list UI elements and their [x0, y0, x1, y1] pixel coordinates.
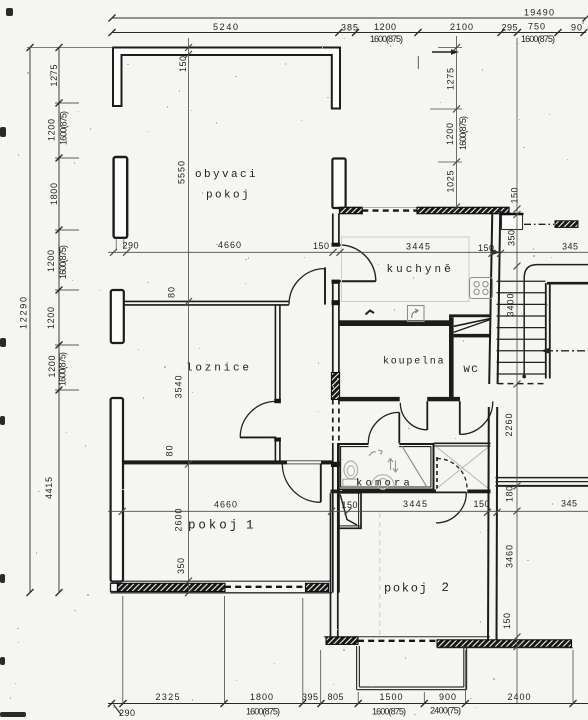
wall: pokoj 1 south wall hatched segment — [118, 583, 226, 591]
wall: divider stub at pokoj 1 door east side (dark) — [321, 460, 332, 464]
staircase treads — [497, 281, 546, 374]
window: dashed opening in kuchyne north wall — [362, 209, 417, 211]
svg-text:4660: 4660 — [214, 500, 237, 510]
svg-text:4660: 4660 — [218, 240, 241, 250]
svg-text:1200: 1200 — [445, 123, 455, 145]
faint fold line in pokoj 2 — [379, 513, 381, 636]
door swing arc: pokoj 2 entry door — [436, 493, 466, 523]
dimension chain line: top row — [109, 29, 588, 36]
door swing arc: pokoj 1 door — [282, 464, 321, 503]
door: shaft diagonal door leaf lines — [454, 319, 490, 327]
vertical dimension line x=456.5 (kitchen column) — [430, 36, 462, 211]
svg-text:150: 150 — [474, 499, 490, 509]
dimension line: overall 19490 top — [109, 15, 588, 22]
svg-text:1200: 1200 — [47, 356, 57, 378]
balcony: railing outline below pokoj 2 — [357, 646, 467, 690]
double arrow symbol in komora — [388, 459, 398, 473]
svg-text:290: 290 — [119, 708, 135, 718]
svg-text:4415: 4415 — [44, 477, 54, 499]
bottom dimension chain line — [108, 700, 588, 707]
scan artifacts: dark blobs at page edges — [0, 8, 26, 717]
svg-text:3445: 3445 — [406, 242, 430, 252]
svg-text:150: 150 — [178, 56, 188, 72]
wall: central wall dashed opening segment — [332, 400, 334, 444]
wall: shaft / WC divider bar — [454, 334, 491, 338]
door swing arc: hall/komora door — [368, 412, 399, 443]
svg-text:3460: 3460 — [505, 545, 515, 568]
svg-text:2400(75): 2400(75) — [430, 706, 461, 716]
wall: koupelna south wall east part / WC south-west (dark) — [427, 397, 460, 401]
door leaf: hall/komora door — [398, 412, 400, 443]
wall: pokoj 1 south wall east hatched segment — [306, 583, 329, 591]
stair walking line with arrow — [545, 350, 588, 352]
svg-text:295: 295 — [502, 23, 518, 33]
wall: loznice east wall upper part — [274, 305, 276, 400]
svg-text:150: 150 — [342, 500, 358, 510]
svg-text:1200: 1200 — [374, 22, 396, 32]
svg-text:WC: WC — [464, 364, 480, 376]
svg-text:1600(875): 1600(875) — [372, 707, 406, 717]
wall: koupelna north wall (dark) — [340, 320, 452, 326]
svg-text:150: 150 — [502, 613, 512, 629]
neighbour balcony: triple horizontal lines right side — [496, 477, 588, 479]
kitchen counter: faint outline — [342, 237, 470, 302]
door swing arc: kuchyne west door — [339, 245, 376, 281]
cabinet cross: faint X in nook east of komora — [436, 447, 489, 490]
short tick extension under 1200 top chain — [417, 56, 419, 69]
svg-text:1600(875): 1600(875) — [59, 111, 69, 145]
svg-text:2: 2 — [442, 581, 450, 595]
svg-text:345: 345 — [561, 499, 577, 509]
svg-text:pokoj: pokoj — [206, 190, 251, 202]
svg-text:komora: komora — [356, 478, 413, 490]
svg-text:150: 150 — [313, 241, 329, 251]
door swing arc: WC door — [460, 401, 493, 434]
svg-text:obyvaci: obyvaci — [195, 169, 258, 181]
staircase bottom dashed landing edge — [498, 383, 547, 385]
wall: left facade pier C (pokoj 1 west wall) — [111, 398, 123, 582]
dimension row inside plan at y=511 — [108, 508, 588, 516]
door jamb: pokoj 1 door at central wall — [331, 462, 340, 467]
wall: pokoj 1 south exterior wall outline — [111, 580, 332, 582]
svg-text:1025: 1025 — [446, 171, 456, 193]
door swing arc: obyvaci/loznice door — [289, 269, 325, 305]
wall junction block on central wall at obyvaci/loznice divider — [332, 300, 340, 305]
squiggle arrow in komora — [369, 450, 382, 456]
window: dashed opening in pokoj 2 south wall — [358, 640, 437, 642]
wall: kuchyne north exterior wall, hatched segment right — [417, 207, 509, 213]
wall: kuchyne north exterior wall, hatched segment left — [340, 207, 363, 213]
neighbour wall: dash-dot line at top right — [524, 223, 554, 225]
wall: pokoj 2 west wall — [330, 493, 332, 637]
svg-text:750: 750 — [528, 21, 545, 31]
rotated labels on x=517 line — [502, 188, 520, 630]
wall: pokoj 2 north wall west part (dark) — [331, 490, 437, 494]
wall: pokoj 2 south wall east hatched segment continuing under east wall — [437, 640, 572, 647]
threshold: pokoj 1 door opening — [287, 460, 321, 462]
svg-text:1200: 1200 — [46, 307, 56, 329]
svg-text:350: 350 — [176, 558, 186, 574]
door leaf: loznice door — [240, 436, 276, 438]
window: dashed opening in pokoj 1 south wall — [225, 586, 306, 588]
door swing arc dashed: nook folding door — [437, 459, 467, 489]
wall: top exterior U-wall of obyvaci pokoj — [113, 48, 340, 109]
washer: faint icon in komora — [372, 475, 395, 486]
landing: entrance landing outside kitchen — [502, 215, 523, 230]
mark: small dark check in koupelna top left — [366, 311, 375, 315]
door leaf dashed: nook folding door — [436, 457, 438, 489]
svg-text:1600(875): 1600(875) — [246, 707, 280, 717]
svg-text:loznice: loznice — [186, 363, 252, 375]
svg-text:1600(875): 1600(875) — [58, 245, 68, 279]
svg-text:395: 395 — [302, 692, 318, 702]
wall: koupelna south wall west part (dark) — [340, 397, 400, 401]
wall: pokoj 2 north wall east part (dark) — [467, 490, 490, 494]
svg-text:350: 350 — [507, 230, 517, 246]
dimension line: overall 12290 left — [29, 48, 31, 593]
wall: komora box outer border — [338, 444, 434, 490]
svg-text:pokoj: pokoj — [188, 519, 240, 533]
wall: koupelna / WC divider — [449, 317, 454, 401]
handrail: curved line at stair head with railing down the flight — [524, 265, 588, 377]
wall: central wall lower solid segment (pokoj 1 east wall) — [332, 443, 334, 593]
svg-text:1200: 1200 — [46, 250, 56, 272]
svg-text:2600: 2600 — [174, 509, 184, 532]
staircase east wall — [545, 283, 547, 379]
door jamb: kuchyne west door top — [332, 243, 340, 247]
svg-text:koupelna: koupelna — [383, 356, 445, 368]
entrance arrow under top chain — [432, 51, 453, 53]
wall: pier between obyvaci pokoj and kuchyne block (east facade) — [332, 159, 345, 209]
door leaf: pokoj 1 door — [320, 464, 322, 503]
svg-text:5240: 5240 — [213, 22, 238, 32]
svg-text:2325: 2325 — [156, 692, 180, 702]
dimension labels left column (rotated) — [44, 65, 69, 500]
svg-text:1800: 1800 — [250, 692, 273, 702]
svg-text:1600(875): 1600(875) — [458, 116, 468, 150]
cabinet diagonal: faint diagonal in komora right part — [402, 446, 428, 488]
svg-text:12290: 12290 — [19, 297, 29, 329]
svg-text:2100: 2100 — [450, 22, 473, 32]
svg-text:90: 90 — [571, 23, 582, 33]
svg-text:pokoj: pokoj — [384, 582, 429, 596]
wall: divider obyvaci pokoj / loznice — [124, 300, 289, 302]
rotated labels on x=456.5 line — [445, 68, 468, 193]
svg-text:1275: 1275 — [446, 68, 456, 90]
svg-text:385: 385 — [341, 22, 358, 32]
dimension chain line: left column — [55, 44, 79, 596]
interior vertical dimension line x=188.5 — [185, 38, 192, 596]
wall: left facade pier B — [111, 290, 124, 343]
wall: central wall solid segment below kuchyne door — [332, 284, 334, 373]
door leaf: pokoj 2 entry door — [436, 491, 467, 493]
svg-text:1600(875): 1600(875) — [58, 352, 68, 386]
svg-text:900: 900 — [439, 692, 456, 702]
wall: nook top wall east of komora — [434, 442, 491, 444]
wall: apartment east wall, east face — [498, 211, 501, 384]
door swing arc: loznice door — [240, 401, 276, 437]
door leaf: obyvaci/loznice door — [324, 267, 326, 304]
svg-text:5550: 5550 — [177, 161, 187, 184]
dimension row inside plan at y=252 — [108, 238, 588, 257]
wall: komora box inner border — [341, 447, 431, 487]
extension lines from building down to bottom chain — [123, 596, 573, 704]
svg-text:3540: 3540 — [174, 376, 184, 399]
wall: central wall hatched segment — [331, 373, 339, 400]
cabinet: corner box in pokoj 2 NW — [339, 493, 361, 529]
wall: loznice east wall lower stub — [274, 438, 276, 462]
svg-text:150: 150 — [510, 188, 520, 204]
svg-text:290: 290 — [123, 241, 139, 251]
wall: pokoj 2 south wall west hatched segment — [324, 636, 490, 638]
svg-text:1800: 1800 — [49, 183, 59, 205]
svg-text:150: 150 — [478, 243, 494, 253]
neighbour wall: hatched bar top right — [555, 221, 578, 228]
svg-text:805: 805 — [328, 692, 344, 702]
wall: divider loznice / pokoj 1 (dark) — [122, 460, 287, 464]
wall: pokoj 1 south wall west end cap — [111, 583, 118, 591]
door leaf: kuchyne west door — [339, 280, 376, 282]
door jamb: kuchyne west door bottom — [332, 280, 340, 284]
door leaf: WC door — [459, 401, 461, 434]
svg-text:kuchyně: kuchyně — [387, 264, 454, 276]
svg-text:1600(875): 1600(875) — [370, 34, 403, 44]
svg-text:80: 80 — [165, 446, 175, 457]
svg-text:3445: 3445 — [403, 499, 427, 509]
svg-text:1: 1 — [246, 519, 254, 533]
wall: central wall between obyvaci/kuchyne, upper solid part — [332, 214, 334, 245]
extension line top left — [27, 47, 113, 49]
wall: left facade pier A — [114, 157, 128, 238]
svg-text:2260: 2260 — [504, 414, 514, 437]
door leaf: koupelna door — [426, 401, 428, 430]
door swing arc: koupelna door — [400, 403, 427, 430]
vertical dimension line x=517 (right column) — [514, 38, 521, 704]
stove: 4-burner icon in kitchen — [470, 278, 493, 299]
wall: apartment east wall (kitchen to pokoj 2), west face — [489, 211, 492, 384]
svg-text:2400: 2400 — [508, 692, 531, 702]
svg-text:345: 345 — [562, 242, 578, 252]
toilet: faint icon in komora — [344, 461, 358, 479]
svg-text:180: 180 — [505, 486, 515, 502]
door jamb: loznice door top — [274, 399, 281, 403]
svg-text:3400: 3400 — [506, 294, 516, 317]
sink: small box with arrow below kitchen — [408, 306, 425, 322]
svg-text:1600(875): 1600(875) — [521, 34, 555, 44]
neighbour wall face line from stair wall to edge — [547, 282, 588, 285]
rotated labels on x=188.5 line — [165, 56, 189, 574]
svg-text:1500: 1500 — [380, 692, 403, 702]
dimension arrow at east wall row y=252 — [493, 250, 501, 255]
svg-text:1200: 1200 — [47, 119, 57, 141]
svg-text:80: 80 — [167, 287, 177, 298]
wall: shaft top wall right of koupelna — [449, 314, 491, 317]
svg-text:19490: 19490 — [524, 8, 554, 18]
